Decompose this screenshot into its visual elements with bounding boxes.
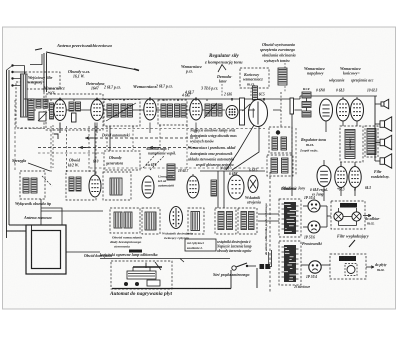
dashed row y153 [38,152,103,154]
tube V4 6L7 IF amp 2 [190,97,202,120]
bus jog [299,96,301,99]
fuse F1 [260,264,270,269]
signal path wire [34,109,36,111]
pointer under Regulator sily [218,65,226,73]
control bus arrow [150,146,160,148]
bus tap [59,99,61,101]
changer post 1 [132,267,134,271]
bus tap [123,99,125,101]
bus tap [231,99,233,101]
choke bottom bus [339,225,357,227]
interstage dashed drop [95,126,97,160]
tube V7 6N8 driver [320,99,333,121]
detector circuit enclosure [110,208,140,233]
RF transformer primary [69,102,74,111]
AF input coil [253,86,258,100]
row2 coupling bus [200,170,265,172]
long vertical coupling wire [291,114,293,196]
rect out a [320,205,327,207]
interstage dashed drop [52,125,54,168]
feedback network enclosure upper [269,127,292,153]
connector wire [59,123,61,134]
transformer to tube wire [340,162,342,167]
antenna wire diagonal [46,52,138,70]
crossover filter choke [367,129,376,155]
changer lever [155,262,161,270]
signal path wire [53,109,55,111]
detector coil [218,104,222,116]
signal path wire [273,109,281,111]
dashed drop x89 [88,126,90,172]
dashed pointer AF amp [250,88,252,98]
Sprzegla pointer line [28,163,50,171]
lower dashed bus [90,167,265,169]
bus tap [195,99,197,101]
converter coil a [69,177,74,191]
IFT2 secondary b [181,104,186,117]
IFT1 primary a [107,104,112,117]
coupling coil L3 [43,100,48,108]
underline wire [100,258,230,260]
bus tap [163,99,165,101]
coupling wire to AF stage 2 [232,126,259,170]
rectifier tube 5U4 phono [309,261,321,273]
tube V8 6L3 output [337,97,350,121]
bus tap [50,99,52,101]
loop inner feeder [9,225,32,231]
feedback network enclosure lower [267,155,293,176]
rect wire b [303,226,308,228]
solid jog wire [54,134,58,139]
driver tube stub [325,121,327,132]
wire fuse to transformer [270,250,272,267]
smoothing filter enclosure [331,201,365,229]
tube V6 6C5 first AF amp [249,100,268,127]
signal path wire [104,109,108,111]
mains switch [232,263,247,270]
filter choke 2 [352,208,361,226]
terminal lead [13,65,25,67]
signal path wire [239,109,243,111]
record changer enclosure [111,261,172,289]
signal path wire [81,109,91,111]
changer platter [127,271,156,279]
wire pair second conductor [268,252,270,264]
feedback cap Cd [282,158,289,173]
tube to transformer stub [342,121,344,126]
signal path wire [217,109,219,111]
terminal lead [13,78,25,80]
label frame Wejsciowy filtr [25,72,60,89]
bus tap [263,99,265,101]
antenna link wire [30,54,42,65]
tube V18 6L3 [335,165,347,188]
bus tap [109,99,111,101]
tube V10 oscillator [89,173,101,197]
tube V14 indicator [248,176,258,193]
underline hook [180,259,184,263]
feedback cap Cb [281,137,287,150]
switch box to loop wire [40,199,42,225]
wavechange coil [110,178,122,195]
IFT1 secondary a [121,104,126,117]
phono out arrow [366,266,374,268]
filter choke 1 [334,208,343,226]
resistor 10000 [339,256,356,261]
loop feeder horizontal [6,230,26,232]
antenna terminal 1 [11,64,13,66]
terminal lead [13,71,25,73]
rect wire a [303,205,308,207]
IFT2 primary b [168,104,173,117]
top HT bus [24,98,300,100]
signal path wire [186,109,190,111]
switch coil b [31,178,37,193]
switch coil a [23,178,29,193]
interstage dashed drop [186,125,188,168]
AVC bus arrow [86,137,95,139]
filament transformer winding [282,245,299,282]
changer motor [147,280,160,286]
top bus right part [300,95,377,97]
tube V2 1647 mixer [91,98,103,121]
filter choke L11 [191,212,200,231]
bus junction dot [263,98,265,100]
signal path wire [203,109,206,111]
speaker tweeter [381,99,389,108]
antenna downlead wire 2 [46,53,48,92]
pointer dash 2 [150,156,164,170]
dashed drop x51 [50,126,52,172]
IF transformer 2 enclosure [158,100,187,125]
detector coil b [124,212,132,228]
IFT3 primary [205,104,210,116]
tube V11 AF [142,176,154,198]
long lateral wire to detector box [41,210,103,212]
rect to filter wire [327,215,331,217]
signal path wire [133,109,144,111]
phono rect wire in [301,264,309,266]
rect out b [320,226,327,228]
AVC coil [145,212,156,230]
drop wire a [217,171,219,208]
coupling network C/R middle [302,102,311,108]
dashed drop from tone label [280,92,282,128]
label box N 6G6 [185,239,216,251]
left dashed column [14,100,16,172]
feedback cap Cc [271,158,278,173]
output arrow [363,214,371,216]
tube cathode stub [96,123,98,134]
bus junction dot [149,98,151,100]
dashed pointer demodulator [221,84,223,97]
detector coil a [114,212,122,228]
wire to splitter tube [323,160,325,167]
upper dashed bus [20,128,265,130]
power transformer enclosure [279,199,301,237]
terminal lead [13,85,25,87]
stack link wire [306,98,308,102]
phono jack [345,264,357,276]
tube V12 [187,174,199,198]
antenna input coil tall [21,74,28,117]
RF transformer secondary [76,102,81,111]
choke enclosure [188,208,204,234]
coupling network C/R lower [302,111,311,117]
converter enclosure [66,171,96,200]
speaker lead 2 [375,123,380,125]
changer wheel 1 [124,282,128,286]
band switch enclosure [20,171,45,199]
switch drop wire [256,268,258,288]
bus tap [149,99,151,101]
speaker bus wire [374,96,376,161]
feeder top link [7,66,13,71]
AVC diode enclosure [142,208,160,234]
feedback cap Ca [272,137,278,150]
coupling network C/R upper [302,92,311,98]
transformer feed wire b [258,220,279,222]
left vertical feeder wire [6,70,8,238]
mains riser [230,270,232,289]
grid coil L4 [50,103,54,119]
signal path wire [67,109,70,111]
filter label tag [340,203,357,208]
interstage dashed drop [132,126,134,150]
power transformer T2 winding [282,202,299,234]
IFT3 secondary [212,104,217,116]
control dashed bus [38,147,195,149]
antenna terminal 4 [11,84,13,86]
pointer dash 1 [143,152,158,168]
antenna wire stub [35,49,42,51]
tube V9 6L3 output 2 [351,97,364,121]
IFT1 secondary b [128,104,133,117]
trimmer capacitor [38,112,47,121]
drop wire b [223,171,225,208]
coupling coil L2 [36,100,41,108]
antenna coil enclosure [16,82,44,128]
potentiometer wiper arrow [243,104,251,111]
divider enclosure [238,208,257,234]
antenna wire arrowhead [134,69,139,71]
tube V3 6L7 IF amp [144,97,156,120]
IFT2 secondary a [175,104,180,117]
loop antenna outer [26,225,66,274]
speaker lead 3 [375,142,380,144]
tube V19 6L3 [349,165,361,188]
filament transformer enclosure [279,241,301,285]
bus junction dot [96,98,98,100]
dashed link to tone control [295,128,297,176]
antenna terminal 3 [11,77,13,79]
feedback pickup coil [278,68,287,85]
interstage dashed drop [106,126,108,150]
phono supply enclosure [330,254,366,279]
coil top feed wire [24,66,26,75]
changer spindle [145,263,147,269]
switch contact [246,265,248,267]
bus tap [96,99,98,101]
loop antenna inner [32,231,61,269]
transformer to tube wire 2 [354,162,356,167]
bus tap [73,99,75,101]
antenna terminal 2 [11,71,13,73]
IFT2 primary a [161,104,166,117]
dashed pointer feedback [284,63,286,92]
volume potentiometer [240,98,245,125]
loop output wire [66,251,100,253]
divider R b [249,212,255,230]
IF transformer 1 enclosure [104,100,140,127]
dashed drop x66 [66,126,68,172]
tone cap C10 [218,212,224,230]
speaker lead 1 [375,103,381,105]
tube V16 6L8 phase splitter [317,166,331,187]
rectifier tube 5U6 [308,221,320,233]
choke link wire [343,216,352,218]
input filter coil L1 [28,99,34,120]
tube V1 6K7 RF amp [54,98,66,121]
bus tap [30,99,32,101]
AVC dashed bus [85,137,200,139]
changer wheel 2 [135,282,139,286]
arrowhead on control bus [80,146,88,148]
phono rect wire out [321,264,330,266]
tube cathode stub [149,123,151,134]
bus junction dot [231,98,233,100]
antenna downlead wire [43,53,45,92]
tube cathode stub [59,123,61,134]
mains wire to switch [112,288,231,290]
signal path wire [222,109,225,111]
bus tap [206,99,208,101]
wire to fuse [248,265,256,267]
feedback node [276,130,280,134]
speaker woofer [380,154,392,168]
IFT1 tuning arrow [106,103,136,121]
tube stub wire [340,188,342,196]
changer post 2 [149,267,151,271]
resistor R2 [290,98,294,114]
bus junction dot [59,98,61,100]
tube V5 6J6 demodulator (round) [226,106,238,119]
tube to transformer stub 2 [356,121,358,126]
interstage coil [211,180,217,196]
signal path wire [48,109,50,111]
interstage dashed drop [159,125,161,147]
output transformer enclosure [340,126,363,162]
rectifier tube 5U4 [308,200,320,212]
tube stub wire 3 [323,187,325,201]
crossover filter block enclosure [365,126,378,157]
bus junction dot [195,98,197,100]
tone cap enclosure [215,208,236,234]
converter coil b [76,177,81,191]
generator circuits enclosure [104,151,140,170]
left vertical feeder wire 2 [8,70,10,225]
IFT1 primary b [114,104,119,117]
output transformer T1 [345,130,355,159]
tube V20 tuning indicator [170,207,183,229]
connector tag [129,250,142,253]
chassis dashed divider [269,172,271,292]
signal path wire [248,109,255,111]
rect link [326,206,328,227]
signal path wire [157,109,162,111]
transformer feed wire a [258,213,279,215]
wavechange enclosure [103,172,131,200]
tube cathode stub [195,123,197,134]
tube V13 6G7 [228,173,244,199]
speaker lead 4 [375,160,380,162]
filter pointer stroke [349,240,355,247]
label frame Koncowy wzmacniacz [240,68,269,88]
connector wire to oscillator tube [94,123,96,176]
connector wire [109,126,111,151]
coupling wire to AF stage [226,125,254,170]
stack link wire 2 [306,108,308,112]
speaker midrange 1 [380,117,392,131]
divider R a [241,212,247,230]
speaker midrange 2 [380,135,392,149]
IFT3 arrow [204,103,217,118]
switch box lateral wire [41,208,62,225]
changer tone arm bar [133,266,162,268]
signal path wire [295,109,303,111]
tube stub wire 2 [354,188,356,196]
switch pointer dash [42,176,52,186]
resistor R1 [72,113,77,122]
choke L10 [167,164,175,180]
bus tap [177,99,179,101]
tone cap C11 [227,212,233,230]
RF stage enclosure [46,94,103,130]
